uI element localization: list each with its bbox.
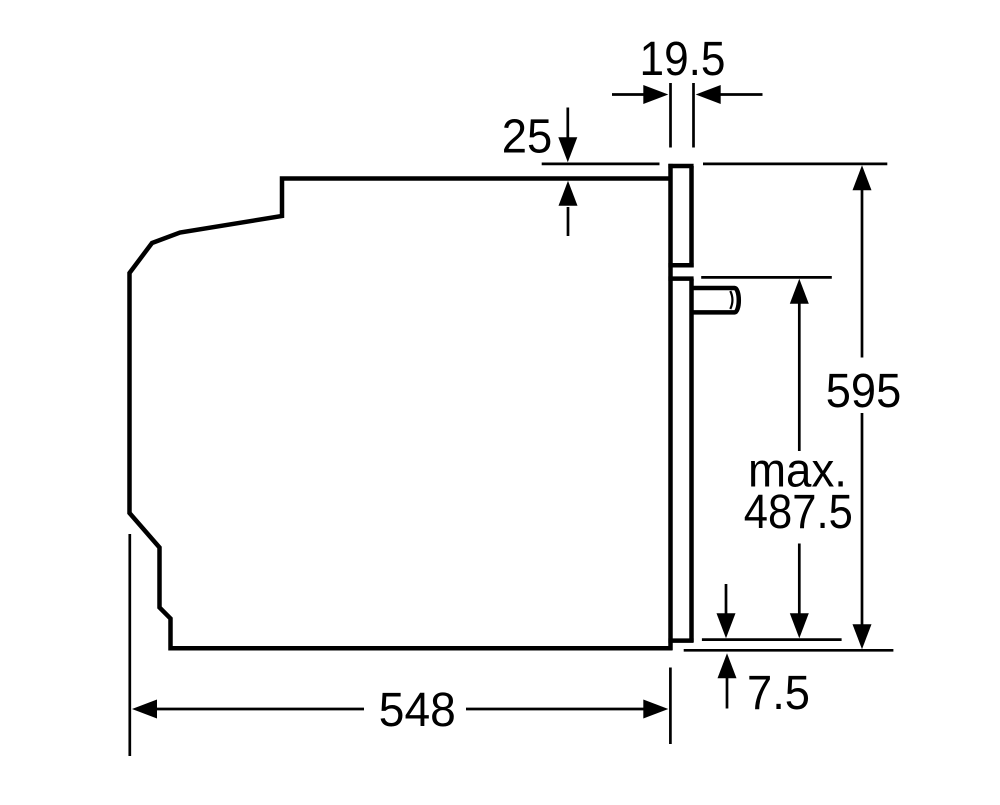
handle end cap line xyxy=(730,291,732,309)
19.5 dimension left arrowhead xyxy=(643,85,668,104)
19.5 dimension right arrowhead xyxy=(696,85,721,104)
19.5 extension line right xyxy=(692,83,695,148)
548 extension line right xyxy=(669,668,672,745)
25 dimension up arrowhead xyxy=(559,181,578,206)
548 extension line left xyxy=(128,534,131,756)
bottom reference line 2 xyxy=(684,649,894,652)
25 dimension up arrow line xyxy=(567,207,570,236)
7.5 dimension lower arrowhead xyxy=(718,653,737,678)
max487.5 dimension line upper xyxy=(798,301,801,451)
door bottom cap xyxy=(668,638,693,643)
19.5 dimension left arrow line xyxy=(612,93,646,96)
max487.5 dimension line lower xyxy=(798,544,801,617)
19.5 extension line left xyxy=(669,83,672,148)
oven body outline xyxy=(130,179,673,649)
door notch cap lower xyxy=(668,276,693,281)
548 dimension line left segment xyxy=(155,708,364,711)
25 dimension down arrow line xyxy=(566,108,569,141)
548 dimension line right segment xyxy=(466,708,646,711)
svg-text:7.5: 7.5 xyxy=(747,666,810,720)
top reference line right segment xyxy=(703,163,887,166)
7.5 dimension lower arrow line xyxy=(726,676,729,709)
svg-text:25: 25 xyxy=(502,109,553,163)
max487.5 top reference line xyxy=(701,276,832,279)
595 dimension line upper xyxy=(861,188,864,358)
door front panel left line xyxy=(668,164,673,651)
svg-text:19.5: 19.5 xyxy=(640,32,726,86)
svg-text:487.5: 487.5 xyxy=(744,485,853,539)
595 dimension top arrowhead xyxy=(853,165,872,190)
595 dimension bottom arrowhead xyxy=(853,624,872,649)
top reference line left segment xyxy=(542,163,660,166)
door front panel right line lower xyxy=(689,279,694,642)
max487.5 dimension bottom arrowhead xyxy=(790,613,809,638)
door handle xyxy=(692,288,739,312)
door front panel right line upper xyxy=(689,166,694,267)
7.5 dimension upper arrow line xyxy=(725,584,728,615)
19.5 dimension right arrow line xyxy=(719,93,763,96)
door front panel top cap xyxy=(668,164,693,169)
548 dimension right arrowhead xyxy=(643,700,668,719)
svg-text:548: 548 xyxy=(379,683,456,737)
595 dimension line lower xyxy=(861,413,864,626)
25 dimension down arrowhead xyxy=(558,137,577,162)
door notch cap upper xyxy=(668,263,693,268)
548 dimension left arrowhead xyxy=(132,700,157,719)
max487.5 dimension top arrowhead xyxy=(790,279,809,304)
bottom reference line 1 xyxy=(702,638,842,641)
7.5 dimension upper arrowhead xyxy=(717,613,736,638)
svg-text:595: 595 xyxy=(826,364,902,418)
